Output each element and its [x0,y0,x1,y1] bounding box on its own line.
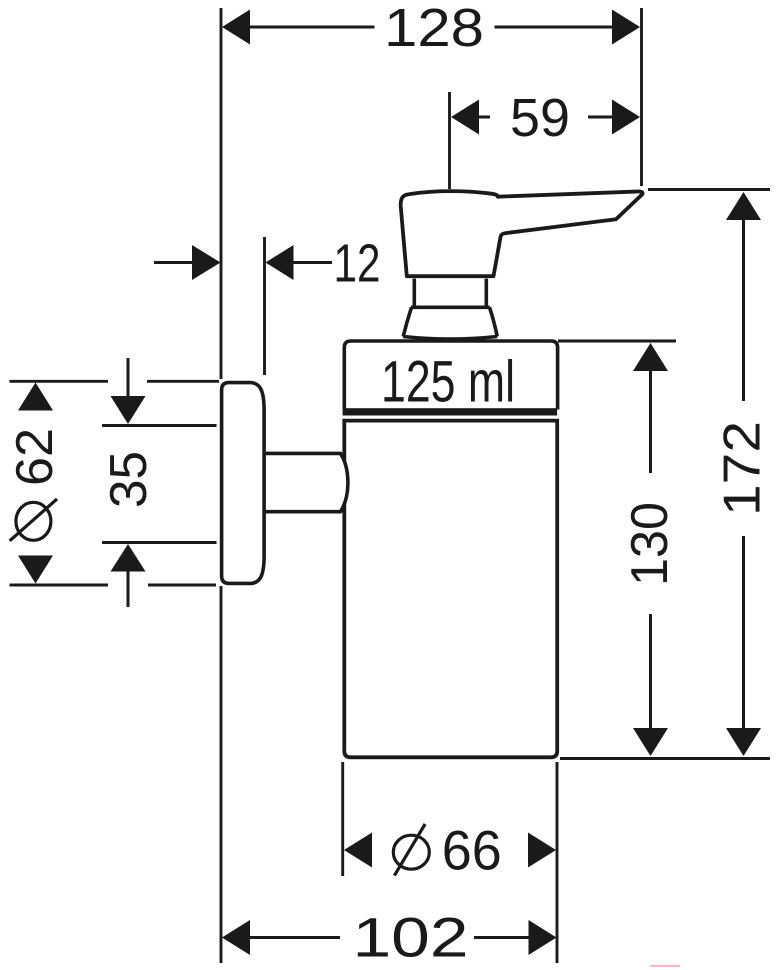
wall plate [222,383,265,584]
watermark artifact (pink) [650,965,680,967]
collar (125 ml section) [344,341,557,410]
wire: wall/plate-left extension line (upper) [220,8,223,379]
svg-text:66: 66 [442,818,502,881]
pump head with lever [401,191,643,276]
dimension dia-66 [343,762,557,963]
svg-text:128: 128 [384,0,484,58]
svg-text:12: 12 [334,233,381,293]
svg-text:172: 172 [714,421,772,516]
wire: right extension line for 128/59 [640,8,643,186]
dimension 130 (rotated) [558,341,679,756]
dimension 59 [450,88,641,189]
dimension 172 (right, rotated) [648,190,772,757]
pump skirt [403,307,497,339]
dimension 12 [154,233,381,375]
svg-text:62: 62 [6,428,64,486]
svg-text:102: 102 [353,906,469,969]
dimension 102 [222,906,557,969]
body canister outline [344,421,557,758]
pump neck ring [411,279,490,308]
svg-text:59: 59 [510,88,570,148]
dimension 128 line [222,0,640,58]
dimension dia-62 (left, rotated) [6,381,219,585]
mounting arm [263,453,348,511]
svg-text:35: 35 [100,451,158,508]
dimension 35 (rotated) [100,358,217,607]
wire: wall/plate-left extension line (lower) [220,586,223,963]
wire: bottom-right extension line (body bottom) [560,757,770,760]
gasket band (black) [343,408,557,415]
svg-text:125 ml: 125 ml [381,350,515,415]
svg-text:130: 130 [621,502,679,586]
